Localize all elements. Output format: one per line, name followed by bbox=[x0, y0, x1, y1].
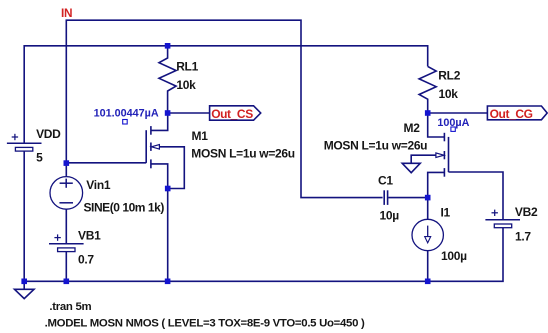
svg-text:I1: I1 bbox=[441, 206, 451, 220]
svg-text:IN: IN bbox=[61, 6, 72, 20]
svg-text:Out_CS: Out_CS bbox=[211, 107, 253, 121]
svg-text:Out_CG: Out_CG bbox=[490, 107, 533, 121]
svg-text:VDD: VDD bbox=[36, 127, 61, 141]
svg-text:101.00447µA: 101.00447µA bbox=[94, 108, 159, 120]
svg-text:.tran 5m: .tran 5m bbox=[49, 301, 91, 313]
svg-text:1.7: 1.7 bbox=[515, 230, 531, 244]
svg-text:10µ: 10µ bbox=[380, 208, 400, 222]
svg-text:VB2: VB2 bbox=[515, 205, 538, 219]
svg-text:SINE(0 10m 1k): SINE(0 10m 1k) bbox=[84, 200, 165, 214]
svg-text:RL2: RL2 bbox=[438, 68, 460, 82]
svg-text:5: 5 bbox=[36, 150, 43, 164]
svg-text:C1: C1 bbox=[378, 173, 393, 187]
svg-text:M2: M2 bbox=[404, 121, 421, 135]
svg-text:Vin1: Vin1 bbox=[86, 178, 111, 192]
svg-text:MOSN L=1u w=26u: MOSN L=1u w=26u bbox=[324, 138, 428, 152]
svg-text:MOSN L=1u w=26u: MOSN L=1u w=26u bbox=[191, 147, 295, 161]
svg-text:0.7: 0.7 bbox=[78, 252, 94, 266]
svg-text:VB1: VB1 bbox=[78, 229, 101, 243]
svg-text:.MODEL MOSN NMOS ( LEVEL=3 TOX: .MODEL MOSN NMOS ( LEVEL=3 TOX=8E-9 VTO=… bbox=[45, 318, 365, 330]
svg-text:10k: 10k bbox=[176, 78, 196, 92]
svg-text:10k: 10k bbox=[439, 87, 459, 101]
svg-text:100µA: 100µA bbox=[437, 117, 469, 129]
svg-text:M1: M1 bbox=[192, 129, 209, 143]
svg-text:RL1: RL1 bbox=[176, 59, 198, 73]
svg-text:100µ: 100µ bbox=[441, 249, 467, 263]
